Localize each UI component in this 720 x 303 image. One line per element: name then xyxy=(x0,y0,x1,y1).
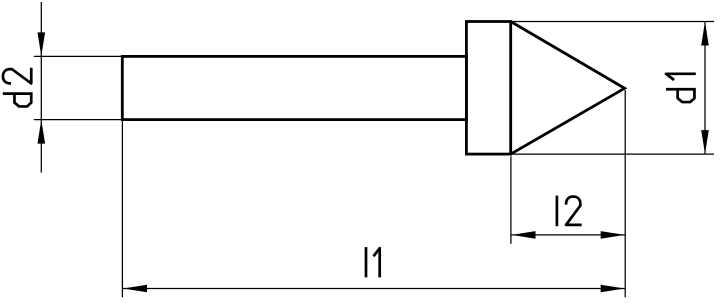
d1 top arrowhead xyxy=(701,22,709,46)
d2 bottom extension line xyxy=(34,119,123,121)
l1 right arrowhead xyxy=(601,285,625,293)
d1 dimension line xyxy=(704,22,706,155)
d2 label xyxy=(3,68,33,107)
l2 right arrowhead xyxy=(601,231,625,239)
l1 left extension line xyxy=(121,121,123,297)
d2 dimension line xyxy=(40,2,42,173)
collar rectangle xyxy=(466,22,510,155)
l2 label xyxy=(557,196,582,227)
l1 label xyxy=(366,247,380,277)
l1 dimension line xyxy=(123,288,625,290)
cone outline xyxy=(511,22,625,155)
d2 top arrowhead xyxy=(38,32,46,56)
d1 label xyxy=(666,74,696,102)
d1 bottom extension line xyxy=(513,153,714,155)
l2 right extension line xyxy=(624,90,626,297)
d2 bottom arrowhead xyxy=(38,120,46,144)
l2 dimension line xyxy=(511,234,625,236)
d2 top extension line xyxy=(34,55,123,57)
l2 left arrowhead xyxy=(512,231,536,239)
shank body outline xyxy=(122,56,466,119)
d1 bottom arrowhead xyxy=(701,130,709,154)
l2 left extension line xyxy=(510,156,512,244)
l1 left arrowhead xyxy=(123,285,147,293)
d1 top extension line xyxy=(513,21,714,23)
